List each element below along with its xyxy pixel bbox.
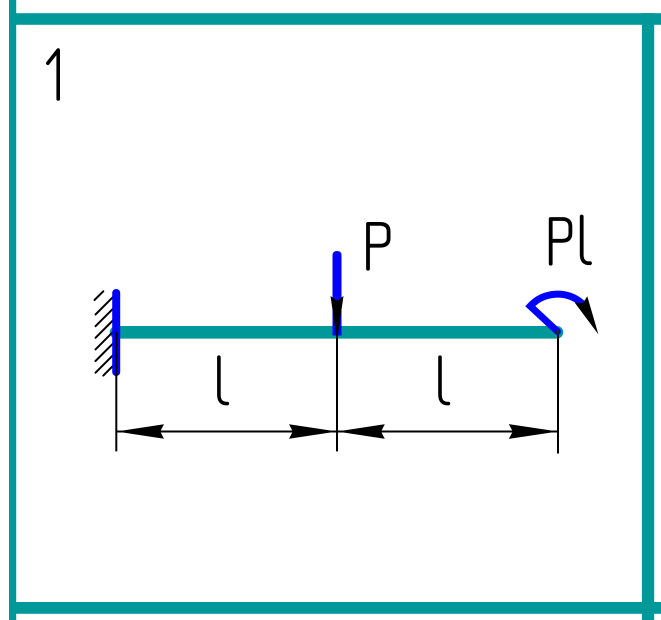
beam	[116, 326, 557, 339]
load label P	[368, 224, 389, 269]
beam end node dot	[556, 330, 560, 334]
wall hatching	[95, 291, 116, 375]
dimension label l right	[440, 357, 448, 403]
dimension label l left	[219, 357, 227, 403]
moment arc	[530, 294, 581, 331]
frame left vertical line	[9, 0, 16, 620]
extension line middle	[336, 333, 338, 451]
extension line right	[557, 332, 559, 454]
dimension arrow right-pointing at middle	[289, 424, 337, 439]
frame bottom bar	[9, 602, 661, 614]
load P arrowhead	[331, 296, 344, 341]
extension line left	[115, 332, 117, 451]
wall fixed support blue line	[112, 293, 120, 372]
dimension arrow left-pointing at left end	[116, 424, 164, 439]
moment arrowhead	[575, 296, 599, 334]
dimension arrow right-pointing at right end	[509, 424, 558, 439]
dimension arrow left-pointing at middle	[337, 424, 385, 439]
frame top bar	[9, 13, 661, 25]
frame right vertical line	[642, 13, 654, 620]
dimension line	[116, 431, 558, 433]
moment label Pl	[551, 219, 571, 264]
load P shaft	[333, 251, 342, 336]
label 1	[48, 50, 58, 99]
